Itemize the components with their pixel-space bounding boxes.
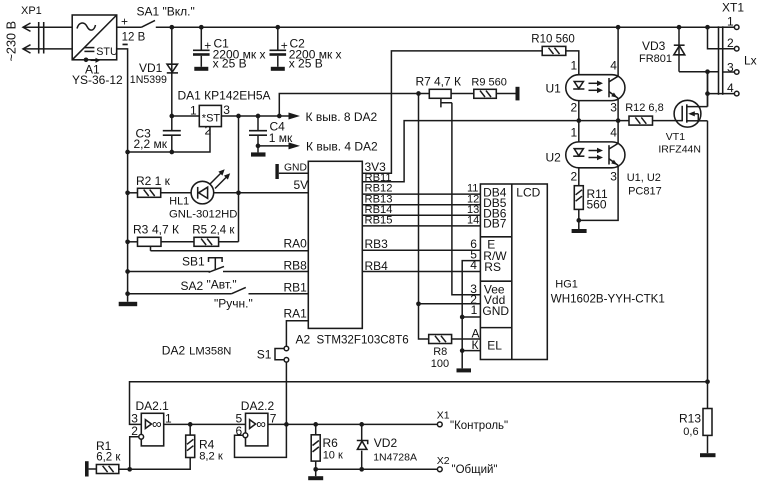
switch S1	[257, 346, 289, 362]
svg-text:10 к: 10 к	[323, 450, 343, 462]
label +12V output	[121, 15, 146, 46]
wire DA2.2 pin6 feedback	[235, 424, 287, 457]
wire R8 to EL A pin	[452, 326, 481, 340]
pin 3V3	[362, 51, 542, 174]
svg-text:GNL-3012HD: GNL-3012HD	[169, 208, 237, 220]
svg-text:SB1: SB1	[182, 255, 205, 269]
svg-text:4: 4	[727, 81, 734, 95]
svg-text:∞: ∞	[152, 417, 162, 432]
svg-text:1: 1	[471, 303, 478, 317]
svg-text:1: 1	[165, 411, 172, 425]
resistor R11 560	[574, 168, 608, 212]
wire Vee row	[470, 282, 477, 296]
resistor R2 1k	[136, 174, 171, 197]
svg-text:SA2: SA2	[181, 279, 204, 293]
wire LCD GND row	[462, 303, 480, 317]
pushbutton SB1	[125, 255, 224, 274]
node R1 R4 junction	[127, 467, 132, 472]
svg-text:RB3: RB3	[365, 237, 389, 251]
wire DA1 pin2 to gnd row	[128, 127, 210, 152]
svg-text:2,2 мк: 2,2 мк	[134, 137, 168, 151]
svg-text:A2: A2	[296, 333, 311, 347]
ground R6	[308, 476, 323, 480]
wire Vdd row	[416, 292, 480, 306]
svg-text:DB7: DB7	[483, 217, 507, 231]
resistor R8 100	[419, 304, 452, 370]
svg-text:6,2 к: 6,2 к	[96, 452, 121, 464]
voltage regulator DA1 KR142EN5A	[178, 89, 271, 138]
wire top rail 12V	[156, 25, 735, 30]
connector XT1	[719, 1, 757, 96]
svg-text:8,2 к: 8,2 к	[199, 450, 223, 462]
svg-text:2: 2	[571, 101, 578, 115]
svg-text:3: 3	[223, 103, 230, 117]
wire K pin to gnd	[462, 338, 480, 352]
wire R3 to R5	[161, 241, 194, 243]
capacitor C4	[249, 116, 293, 157]
svg-text:∞: ∞	[256, 417, 266, 432]
pin RB3 wire to E	[362, 237, 480, 251]
svg-text:3: 3	[610, 101, 617, 115]
svg-text:R4: R4	[199, 438, 215, 452]
svg-text:X1: X1	[437, 410, 450, 422]
svg-text:XT1: XT1	[722, 1, 744, 15]
switch SA1	[137, 5, 195, 28]
svg-text:Lx: Lx	[744, 54, 757, 68]
svg-text:х 25 В: х 25 В	[213, 57, 247, 71]
svg-text:5V: 5V	[294, 178, 309, 192]
svg-text:SA1 "Вкл.": SA1 "Вкл."	[137, 5, 195, 19]
svg-text:LCD: LCD	[516, 186, 540, 200]
svg-text:12 В: 12 В	[122, 32, 146, 44]
svg-text:R6: R6	[323, 436, 339, 450]
resistor R12 6.8	[625, 102, 664, 125]
wire U2 pin4	[617, 121, 619, 144]
wire A1 minus output to left rail	[117, 49, 128, 302]
svg-text:R13: R13	[679, 412, 701, 426]
svg-text:1N4728A: 1N4728A	[373, 452, 417, 464]
ground R13	[700, 453, 716, 457]
svg-text:"Авт.": "Авт."	[207, 278, 237, 292]
svg-text:R10 560: R10 560	[531, 33, 574, 45]
svg-text:R8: R8	[433, 346, 447, 358]
svg-text:RB1: RB1	[284, 281, 308, 295]
svg-text:RA1: RA1	[284, 307, 308, 321]
svg-text:1: 1	[571, 58, 578, 72]
svg-text:4,7 К: 4,7 К	[434, 75, 461, 89]
resistor R1 6.2k	[89, 439, 122, 474]
pin RB12 wire to DB4	[362, 182, 480, 194]
svg-text:"Ручн.": "Ручн."	[214, 297, 253, 311]
svg-text:R3: R3	[133, 223, 149, 237]
ground left rail	[119, 302, 138, 306]
svg-text:1: 1	[727, 14, 734, 28]
svg-text:*ST: *ST	[202, 112, 221, 124]
svg-text:100: 100	[431, 358, 449, 370]
wire S1 to output node	[284, 362, 289, 427]
svg-text:4,7 К: 4,7 К	[152, 223, 179, 237]
svg-text:+: +	[281, 39, 288, 53]
ground LCD	[457, 368, 472, 372]
svg-text:R12 6,8: R12 6,8	[625, 102, 664, 114]
svg-text:1: 1	[571, 126, 578, 140]
svg-text:"Контроль": "Контроль"	[450, 420, 508, 432]
svg-text:2: 2	[727, 36, 734, 50]
wire XT1 row2 strap	[708, 27, 735, 49]
terminal bar R1	[85, 461, 89, 476]
op-amp DA2.1	[131, 399, 172, 446]
svg-text:14: 14	[467, 214, 479, 226]
svg-text:STU: STU	[96, 46, 118, 58]
wire HL1 to 5V node	[213, 190, 308, 195]
pin RB14 wire to DB6	[362, 204, 480, 216]
svg-text:1N5399: 1N5399	[130, 74, 167, 86]
svg-text:7: 7	[270, 411, 277, 425]
wire 5V to Vdd vertical	[418, 94, 420, 304]
wire bottom row to X2	[316, 468, 438, 470]
wire DA2.2 output row	[268, 422, 438, 427]
svg-text:RS: RS	[484, 260, 501, 274]
wire rail to R2	[125, 190, 137, 195]
svg-text:IRFZ44N: IRFZ44N	[658, 143, 701, 155]
wire VT1 drain up	[707, 72, 709, 107]
wire XP1 to A1 top	[23, 26, 72, 28]
svg-text:R2 1 к: R2 1 к	[136, 174, 171, 188]
node C3 junction	[125, 150, 130, 155]
optocoupler U2	[546, 126, 625, 184]
label U1 U2 PC817	[627, 172, 662, 198]
svg-text:YS-36-12: YS-36-12	[72, 73, 123, 87]
svg-text:GND: GND	[284, 162, 307, 173]
svg-text:DA1 КР142ЕН5А: DA1 КР142ЕН5А	[178, 89, 271, 103]
capacitor C2	[270, 27, 342, 71]
svg-text:4: 4	[610, 126, 617, 140]
op-amp DA2.2	[236, 399, 277, 446]
svg-text:X2: X2	[437, 455, 450, 467]
svg-text:К выв. 8 DA2: К выв. 8 DA2	[306, 110, 378, 124]
wire DA1 output 5V row	[221, 114, 281, 119]
svg-text:2: 2	[131, 424, 138, 438]
wire DA2.1 out to DA2.2 in	[164, 422, 246, 435]
svg-text:XP1: XP1	[21, 5, 42, 17]
wire R10 to U1 pin1	[566, 51, 579, 75]
ground R11	[572, 229, 587, 233]
pin RB13 wire to DB5	[362, 193, 480, 205]
svg-text:RB15: RB15	[365, 214, 393, 226]
resistor R6 10k	[311, 424, 343, 476]
svg-text:GND: GND	[482, 304, 509, 318]
LCD HG1 WH1602B-YYH-CTK1	[480, 184, 664, 360]
wire SB1 to RB8	[223, 271, 308, 273]
pin RB15 wire to DB7	[362, 214, 480, 226]
svg-text:VT1: VT1	[666, 131, 685, 143]
resistor R5 2.4k	[192, 224, 235, 246]
wire R3 wiper to RA0	[151, 250, 309, 252]
wire U1 pin2 to node	[576, 101, 581, 123]
svg-text:WH1602B-YYH-CTK1: WH1602B-YYH-CTK1	[551, 293, 665, 306]
wire VT1 source down to R13 node	[698, 121, 710, 384]
svg-text:VD1: VD1	[139, 61, 163, 75]
wire XP1 to A1 bottom	[23, 48, 72, 50]
svg-text:DA2: DA2	[162, 344, 186, 358]
trimmer R3 4.7K	[133, 223, 179, 251]
svg-text:LM358N: LM358N	[189, 346, 231, 358]
svg-text:PC817: PC817	[628, 185, 662, 197]
svg-text:U2: U2	[546, 151, 562, 165]
terminal bar	[516, 87, 520, 101]
svg-text:560: 560	[587, 198, 607, 212]
wire VD3 to XT1 row3	[679, 69, 719, 74]
node to pin8 DA2 arrow	[279, 94, 429, 125]
wire R5 to 5V vertical	[219, 241, 239, 243]
wire rail to R3	[125, 239, 137, 244]
svg-text:К: К	[472, 338, 479, 352]
wire DA1 out down to 5V row	[238, 116, 240, 242]
svg-text:S1: S1	[257, 348, 272, 362]
svg-text:0,6: 0,6	[683, 426, 698, 438]
resistor R13 0.6	[679, 382, 712, 454]
power supply A1 YS-36-12	[72, 15, 123, 87]
diode VD1 1N5399	[130, 27, 178, 116]
switch SA2	[125, 278, 253, 311]
svg-text:VD3: VD3	[642, 39, 666, 53]
wire SA2 to RB1	[249, 293, 309, 295]
connector XP1	[5, 5, 44, 62]
wire R12 to VT1 gate	[653, 120, 683, 122]
svg-text:VD2: VD2	[374, 436, 398, 450]
wire DA1 input	[169, 114, 199, 119]
wire R11 to gnd	[576, 209, 581, 229]
svg-text:5: 5	[470, 247, 477, 261]
svg-text:STM32F103C8T6: STM32F103C8T6	[317, 333, 409, 346]
test point X1	[437, 410, 508, 432]
node to pin4 DA2 arrow	[258, 140, 378, 154]
svg-text:2: 2	[571, 170, 578, 184]
svg-text:"Общий": "Общий"	[452, 464, 498, 476]
svg-text:HL1: HL1	[169, 195, 189, 207]
svg-text:х 25 В: х 25 В	[289, 57, 323, 71]
svg-text:HG1: HG1	[555, 278, 578, 290]
svg-text:EL: EL	[487, 338, 502, 352]
zener diode VD2 1N4728A	[357, 424, 417, 471]
LED HL1 GNL-3012HD	[161, 169, 238, 220]
test point X2	[437, 455, 498, 476]
wire XT1 row3 stub	[723, 71, 735, 73]
transistor VT1 IRFZ44N	[658, 100, 707, 155]
svg-text:К выв. 4 DA2: К выв. 4 DA2	[306, 140, 378, 154]
svg-text:R7: R7	[416, 75, 432, 89]
label DA2 LM358N	[162, 344, 232, 358]
svg-text:+: +	[204, 39, 211, 53]
wire sense rail	[130, 382, 708, 425]
pin RB11	[362, 121, 629, 184]
resistor R10 560	[531, 33, 574, 55]
svg-text:RA0: RA0	[284, 237, 308, 251]
wire XT1 row1	[723, 26, 735, 28]
microcontroller A2 STM32F103C8T6	[296, 161, 409, 346]
wire XT1 row4	[705, 72, 734, 107]
wire U1 pin4 to rail	[617, 27, 619, 76]
svg-text:~230 В: ~230 В	[5, 21, 19, 62]
optocoupler U1	[546, 58, 625, 114]
wire R/W to gnd	[460, 247, 481, 368]
svg-text:FR801: FR801	[639, 53, 672, 65]
svg-text:RB8: RB8	[284, 259, 308, 273]
diode VD3 FR801	[639, 27, 685, 71]
trimmer R7 4.7K	[416, 75, 462, 108]
resistor R4 8.2k	[186, 435, 223, 462]
wire RA1 to S1	[286, 321, 308, 347]
wire U1 pin3 to node	[616, 98, 621, 123]
wire A1 plus output	[117, 26, 142, 28]
wire R7 to R9	[451, 93, 474, 95]
svg-text:U1: U1	[546, 82, 562, 96]
svg-text:3: 3	[610, 170, 617, 184]
wire R9 to terminal	[496, 93, 515, 95]
svg-text:R5 2,4 к: R5 2,4 к	[192, 224, 235, 236]
capacitor C3	[134, 116, 181, 154]
svg-text:U1, U2: U1, U2	[627, 172, 661, 184]
wire DA2.1 pin2 feedback	[130, 437, 139, 470]
wire R7 wiper to Vee	[452, 103, 481, 295]
capacitor C1	[193, 27, 265, 71]
wire R1 to R4 bottom	[119, 458, 190, 470]
pin RB4 wire to RS	[362, 258, 480, 273]
wire U2 pin3 to gnd node	[579, 165, 618, 220]
wire U2 pin1	[578, 121, 580, 142]
resistor R9 560	[471, 76, 506, 98]
pin GND terminal	[275, 162, 308, 179]
svg-text:4: 4	[610, 58, 617, 72]
svg-text:R9 560: R9 560	[471, 76, 506, 88]
node R7 left 5V	[416, 91, 421, 96]
